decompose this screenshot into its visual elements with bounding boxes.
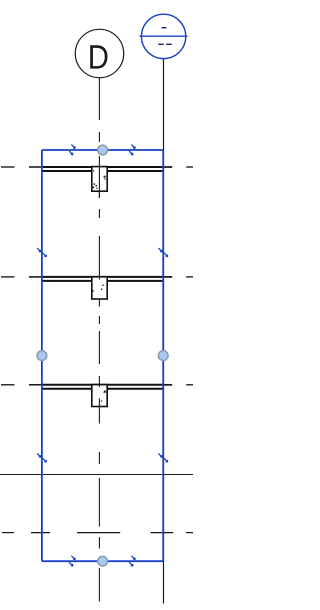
grid bubble D xyxy=(75,29,123,77)
crop region boundary (selected, blue) xyxy=(42,150,163,561)
crop break control right-upper xyxy=(158,248,167,257)
level line L2 (y=277.4) xyxy=(1,276,193,278)
crop left edge xyxy=(41,150,43,561)
level head diameter line xyxy=(140,35,188,37)
grid bubble D label xyxy=(90,45,107,68)
crop break control top-left xyxy=(69,145,75,155)
crop drag grip left xyxy=(37,351,47,361)
grid line through L3 column xyxy=(98,399,100,407)
L1 floor slab lines (bold) xyxy=(42,167,163,171)
hatch speckles L2 xyxy=(92,285,103,292)
L2 floor slab lines (bold) xyxy=(42,277,163,281)
crop break control left-upper xyxy=(37,248,46,257)
crop drag grip top xyxy=(98,145,108,155)
column/beam section at L2 xyxy=(92,277,107,299)
grid line stub entering L3 column top xyxy=(98,385,100,387)
L3 floor slab lines (bold) xyxy=(42,385,163,389)
crop break control bottom-right xyxy=(129,556,135,566)
level head circle (blue) xyxy=(141,14,185,58)
lower level dash-dot line (y=532.6) xyxy=(2,532,193,534)
column/beam section at L1 xyxy=(92,167,107,192)
level line L3 (y=384.4) xyxy=(1,384,193,386)
crop break control bottom-left xyxy=(69,556,75,566)
ground level solid line (y=474.5) xyxy=(0,474,193,476)
grid line D (vertical dash-dot segments at x=99.4) xyxy=(98,78,100,602)
crop bottom edge xyxy=(42,560,163,562)
level head name dash (above) xyxy=(162,27,167,28)
hatch speckles L3 xyxy=(101,391,107,402)
column/beam section at L3 xyxy=(92,385,107,407)
grid line through L1 column xyxy=(98,167,100,198)
crop right edge xyxy=(162,150,164,561)
level line L1 (y=167.5) xyxy=(1,166,193,168)
level head vertical line (black, behind crop right edge) xyxy=(163,59,165,604)
crop top edge xyxy=(42,149,163,151)
hatch speckles L1 xyxy=(93,170,106,189)
crop drag grip bottom xyxy=(98,556,108,566)
grid line stub entering L2 column top xyxy=(98,277,100,280)
crop drag grip right xyxy=(158,351,168,361)
crop break control top-right xyxy=(129,145,135,155)
crop break control right-lower xyxy=(158,454,167,463)
crop break control left-lower xyxy=(37,454,46,463)
level head elevation dashes (below) xyxy=(158,44,164,45)
